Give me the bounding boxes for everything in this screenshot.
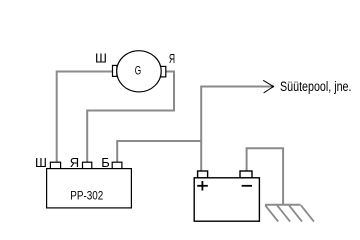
wire: battery - terminal to ground bbox=[247, 148, 284, 205]
svg-text:Ш: Ш bbox=[95, 51, 107, 66]
generator terminal (left, Ш) bbox=[113, 65, 117, 76]
svg-text:Я: Я bbox=[169, 51, 175, 66]
svg-text:Süütepool, jne.: Süütepool, jne. bbox=[280, 79, 352, 94]
battery - terminal post bbox=[240, 171, 252, 178]
arrowhead of Süütepool feed bbox=[263, 80, 273, 93]
battery - polarity mark bbox=[242, 185, 252, 187]
svg-text:PP-302: PP-302 bbox=[70, 189, 103, 203]
wire: battery + terminal up to arrow line (node B junction) bbox=[201, 87, 273, 173]
regulator terminal Б bbox=[112, 162, 122, 168]
generator G1 body bbox=[117, 51, 162, 92]
battery GB1 body bbox=[194, 178, 259, 221]
regulator PP-302 body bbox=[47, 169, 132, 208]
ground bbox=[265, 205, 314, 222]
battery + polarity mark bbox=[197, 181, 208, 191]
generator terminal (right, Я) bbox=[161, 66, 166, 77]
svg-text:Б: Б bbox=[101, 155, 110, 170]
battery + terminal post bbox=[198, 171, 208, 178]
svg-text:G: G bbox=[135, 64, 141, 78]
svg-text:Я: Я bbox=[70, 155, 79, 170]
wire: regulator Б terminal to node B bbox=[117, 141, 201, 164]
wire: generator Я terminal to regulator Я terminal bbox=[87, 72, 174, 165]
regulator terminal Ш bbox=[50, 162, 60, 168]
svg-text:Ш: Ш bbox=[35, 155, 47, 170]
regulator terminal Я bbox=[83, 162, 92, 168]
wire: generator Ш terminal to regulator Ш terminal bbox=[57, 72, 114, 165]
